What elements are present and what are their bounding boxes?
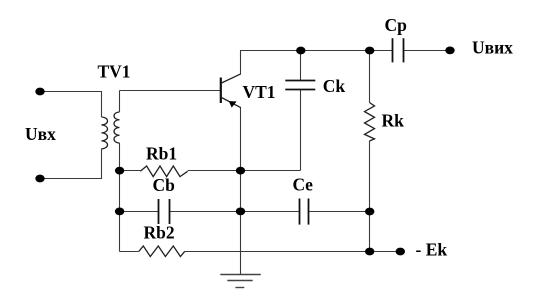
svg-text:Rk: Rk — [382, 111, 405, 131]
transistor VT1 collector diagonal — [222, 74, 241, 83]
wire Rb1 left lead — [120, 170, 141, 172]
wire input top lead — [40, 92, 102, 118]
ground — [220, 275, 260, 288]
svg-text:Uвих: Uвих — [472, 38, 513, 58]
wire emitter vertical down to ground — [240, 108, 242, 275]
svg-text:Cp: Cp — [385, 15, 408, 35]
wire Rb1 right lead — [188, 170, 241, 172]
wire right bus upper (top rail to Rk) — [369, 51, 371, 103]
wire bottom rail — [185, 251, 370, 253]
svg-text:Rb1: Rb1 — [146, 144, 177, 164]
svg-text:Cb: Cb — [153, 175, 176, 195]
wire right bus lower (Rk to bottom) — [369, 141, 371, 252]
node output terminal — [445, 47, 454, 55]
wire input bottom lead — [40, 149, 102, 179]
transformer TV1 secondary winding — [114, 112, 120, 143]
transistor VT1 emitter arrow — [229, 101, 237, 108]
resistor Rk — [365, 103, 375, 142]
wire base from transformer to VT1 — [120, 90, 221, 92]
wire Ce left lead — [241, 211, 300, 213]
node emitter / Rb1 junction — [236, 167, 245, 175]
node secondary / Rb1 junction — [115, 167, 124, 175]
node Ek terminal — [396, 248, 405, 256]
resistor Rb2 — [139, 246, 185, 257]
svg-text:Rb2: Rb2 — [144, 222, 175, 242]
svg-text:TV1: TV1 — [98, 62, 131, 82]
wire Cb left lead — [120, 211, 159, 213]
node bottom rail junction — [365, 248, 374, 256]
node top rail / Rk junction — [365, 47, 374, 55]
wire collector vertical — [240, 50, 242, 74]
wire Ce right lead — [309, 211, 370, 213]
wire left bus vertical — [119, 171, 121, 252]
transformer TV1 primary winding — [102, 117, 108, 149]
svg-text:Uвх: Uвх — [25, 124, 56, 144]
wire top rail right segment (Cp to output) — [404, 50, 451, 52]
node input top terminal — [35, 88, 44, 96]
node input bottom terminal — [35, 175, 44, 183]
resistor Rb1 — [140, 166, 187, 177]
capacitor Cp plates — [393, 38, 404, 62]
node top rail / Ck junction — [296, 47, 305, 55]
wire junction to Ck bottom — [241, 170, 301, 172]
node Cb / Ce junction — [236, 208, 245, 216]
node Ce / Rk bus junction — [365, 208, 374, 216]
wire Ek stub — [370, 251, 401, 253]
wire Cb right lead — [170, 211, 241, 213]
capacitor Cb plates — [159, 199, 170, 224]
svg-text:Ce: Ce — [293, 174, 314, 194]
capacitor Ck plates — [285, 81, 315, 90]
transistor VT1 base bar — [220, 78, 222, 104]
wire secondary top lead — [119, 91, 121, 113]
wire top rail left segment — [241, 50, 393, 52]
wire Ck bottom lead — [300, 90, 302, 171]
transistor VT1 emitter diagonal — [222, 98, 241, 108]
capacitor Ce plates — [300, 199, 309, 225]
wire secondary bottom lead — [119, 143, 121, 171]
svg-text:VT1: VT1 — [243, 82, 276, 102]
wire Ck top lead — [300, 51, 302, 82]
svg-text:- Ek: - Ek — [416, 239, 448, 259]
wire Rb2 left lead — [120, 251, 139, 253]
svg-text:Ck: Ck — [323, 76, 346, 96]
node Cb left junction — [115, 208, 124, 216]
